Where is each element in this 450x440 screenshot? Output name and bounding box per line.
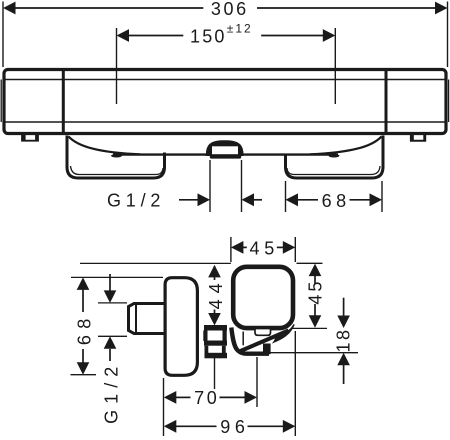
- valve center stub line: [214, 356, 216, 389]
- body top chamfer line: [5, 79, 446, 81]
- dim 68 front ext line left: [285, 181, 287, 212]
- dim 45 top arrow right: [283, 241, 296, 254]
- left cup inner rim line: [71, 166, 164, 175]
- right underside curve: [310, 137, 382, 155]
- nipple groove line: [135, 304, 137, 334]
- dim G1/2 front arrow right: [242, 193, 255, 206]
- handle body: [233, 267, 293, 328]
- mixer body outline: [4, 70, 446, 134]
- dim 306 extension line left: [2, 2, 4, 68]
- dim 150 extension line left: [116, 28, 118, 104]
- grip bowl outer wall: [231, 328, 269, 354]
- left bottom tab: [21, 134, 39, 142]
- right cup inner rim line: [287, 166, 380, 175]
- dim 150 extension line right: [334, 28, 336, 104]
- dim 96 line right segment: [248, 425, 285, 427]
- dim G1/2 front arrow right tail: [254, 199, 263, 201]
- dim G1/2 front arrow left: [198, 193, 211, 206]
- dim 68 front arrow left: [286, 193, 299, 206]
- dim 45 top ext line left: [230, 237, 232, 262]
- dim 44 arrow up: [208, 265, 221, 278]
- dim 68 side bottom ext line: [71, 374, 97, 376]
- dim 68 front ext line right: [381, 181, 383, 212]
- svg-text:150: 150: [190, 27, 227, 47]
- body left end profile line: [0, 80, 2, 123]
- dim 68 side arrow down: [77, 362, 90, 375]
- svg-text:45: 45: [306, 279, 326, 305]
- dim G1/2 front ext line left: [209, 160, 211, 212]
- dim G1/2 side line upper: [109, 274, 111, 291]
- valve connector band B: [204, 341, 227, 346]
- svg-text:44: 44: [206, 277, 226, 309]
- outlet nut face: [212, 146, 238, 154]
- valve connector wall B left: [204, 346, 208, 353]
- dim 45 right line upper: [314, 275, 316, 285]
- valve connector wall A left: [203, 331, 207, 342]
- body right end profile line: [448, 80, 450, 123]
- dim 68 side line lower: [82, 349, 84, 363]
- dim 306 arrow right: [435, 2, 448, 15]
- dim 44 line upper: [214, 266, 216, 280]
- dim 306 arrow left: [3, 2, 16, 15]
- dim 45 top line right segment: [277, 246, 284, 248]
- center outlet dome: [206, 140, 244, 156]
- svg-text:18: 18: [333, 327, 353, 352]
- handle front ext line down: [294, 331, 296, 436]
- svg-text:68: 68: [74, 312, 94, 345]
- dim 18 arrow down: [337, 316, 350, 329]
- dim 68 side arrow up: [77, 277, 90, 290]
- dim G1/2 side bottom ext line: [98, 335, 127, 337]
- dim 45 right arrow up: [309, 264, 322, 277]
- left shading blob: [111, 154, 122, 157]
- body right end-cap line: [385, 70, 388, 134]
- dim 45 top arrow left: [231, 241, 244, 254]
- dim 70 line left segment: [175, 396, 191, 398]
- dim 45 right bottom ext line: [291, 327, 327, 329]
- handle top plane line: [80, 262, 231, 264]
- left underside curve: [69, 137, 141, 155]
- dim 306 extension line right: [447, 2, 449, 68]
- dim 70 arrow left: [164, 391, 177, 404]
- grip angled face edge: [241, 331, 289, 352]
- grip paddle side line: [242, 332, 244, 346]
- svg-text:68: 68: [322, 191, 351, 211]
- dim 18 line upper: [343, 298, 345, 317]
- svg-text:306: 306: [211, 0, 249, 19]
- valve connector band A: [204, 325, 227, 331]
- dim 18 bottom ext line: [245, 352, 358, 354]
- svg-text:70: 70: [194, 388, 219, 408]
- right escutcheon cup: [286, 136, 384, 179]
- left escutcheon cup: [67, 136, 165, 179]
- grip shadow swoosh: [272, 324, 295, 343]
- valve connector band C: [205, 353, 228, 359]
- svg-text:45: 45: [250, 239, 279, 259]
- dim 150 line left segment: [128, 35, 183, 37]
- disc front ext line down: [163, 378, 165, 436]
- dim 45 right top ext line: [297, 262, 323, 264]
- svg-text:G1/2: G1/2: [102, 361, 122, 424]
- dim 45 right arrow down: [309, 315, 322, 328]
- dim G1/2 side top ext line: [98, 302, 127, 304]
- escutcheon disc: [165, 278, 197, 376]
- valve connector wall B right: [222, 346, 226, 353]
- dim 68 front line left segment: [297, 199, 318, 201]
- svg-text:96: 96: [220, 417, 249, 437]
- dim 18 arrow up: [337, 353, 350, 366]
- dim 68 front arrow right: [370, 193, 383, 206]
- dim 96 arrow right: [283, 420, 296, 433]
- dim 150 arrow right: [323, 29, 336, 42]
- dim 68 side top ext line: [71, 276, 163, 278]
- dim 306 line right segment: [257, 7, 437, 9]
- right shading blob: [329, 154, 340, 157]
- grip button tab: [255, 329, 271, 336]
- svg-text:±12: ±12: [227, 21, 253, 35]
- valve connector wall A right: [223, 331, 227, 342]
- dim G1/2 side arrow up: [104, 336, 117, 349]
- dim 44 line lower: [214, 310, 216, 315]
- dim 70 arrow right: [245, 391, 258, 404]
- dim 306 line left segment: [13, 7, 203, 9]
- dim 96 line left segment: [175, 425, 217, 427]
- dim 44 arrow down: [208, 313, 221, 326]
- outlet base block: [210, 153, 241, 159]
- body bottom chamfer line: [5, 121, 446, 123]
- grip ext line down: [256, 357, 258, 407]
- wall nipple: [129, 304, 164, 334]
- dim 45 top ext line right: [294, 237, 296, 262]
- dim 45 top line left segment: [242, 246, 247, 248]
- dim G1/2 side line lower: [109, 349, 111, 361]
- dim 68 side line upper: [82, 289, 84, 312]
- dim G1/2 front ext line right: [241, 160, 243, 212]
- grip foot: [263, 344, 271, 355]
- right bottom tab: [410, 134, 426, 142]
- dim 68 front line right segment: [350, 199, 371, 201]
- dim 150 arrow left: [117, 29, 130, 42]
- dim 18 line lower: [343, 364, 345, 384]
- dim 96 arrow left: [164, 420, 177, 433]
- svg-text:G1/2: G1/2: [107, 191, 165, 211]
- dim 150 line right segment: [261, 35, 324, 37]
- body left end-cap line: [62, 70, 65, 134]
- dim 45 right line lower: [314, 304, 316, 316]
- dim G1/2 side arrow down: [104, 290, 117, 303]
- dim G1/2 front arrow left tail: [179, 199, 198, 201]
- dim 70 line right segment: [220, 396, 246, 398]
- lower shelf line: [113, 153, 338, 155]
